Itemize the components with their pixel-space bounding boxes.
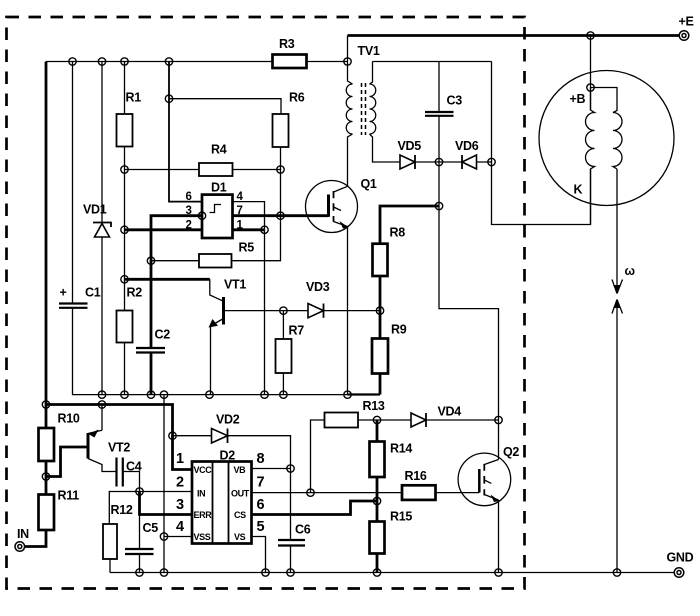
resistor R10 [39, 412, 80, 462]
IC D1 Schmitt trigger [202, 181, 233, 239]
transistor Q2 [458, 445, 519, 506]
transistor VT2 (PNP) [88, 430, 130, 459]
node: R8/R9 junction [376, 307, 383, 314]
svg-text:VD5: VD5 [398, 139, 422, 153]
wire: D1 pin4 jumper to pin1 [233, 202, 265, 230]
node: R10/R11 junction [42, 473, 49, 480]
capacitor C2 [136, 328, 170, 353]
capacitor C3 [425, 94, 462, 116]
node: C4 / pin2 / pin3 junction [136, 488, 143, 495]
svg-text:6: 6 [257, 497, 265, 513]
svg-text:R11: R11 [58, 489, 80, 503]
svg-text:3: 3 [176, 497, 184, 513]
diode VD6 (points left) [455, 139, 479, 169]
resistor R14 [370, 442, 413, 478]
wire: pin1 ground drop x=264.5 [264, 230, 266, 395]
wire: R7 leads [282, 311, 284, 395]
node: R8 tap junction [435, 202, 442, 209]
node: motor +B junction [587, 84, 594, 91]
wire: VD2 cathode to pin8 [228, 436, 291, 469]
wire: +E supply rail [348, 34, 680, 37]
resistor R2 [117, 286, 143, 343]
resistor R9 [372, 323, 407, 374]
wire: R13 left drop [311, 420, 325, 493]
svg-text:IN: IN [17, 527, 29, 541]
svg-text:VT2: VT2 [108, 441, 130, 455]
resistor R15 [370, 510, 413, 554]
svg-text:C3: C3 [447, 94, 463, 108]
diode VD4 [411, 405, 461, 428]
wire: R10 to R11 chain with IN terminal [25, 461, 47, 547]
diode VD3 [306, 280, 330, 318]
transistor VT1 [209, 278, 247, 395]
svg-text:ω: ω [625, 264, 636, 278]
svg-text:R15: R15 [390, 510, 412, 524]
svg-text:VD4: VD4 [438, 405, 462, 419]
terminal IN [15, 527, 29, 551]
resistor R12 [103, 503, 133, 559]
svg-text:VCC: VCC [194, 465, 213, 475]
node: bottom bus junctions [136, 569, 621, 576]
capacitor C4 [117, 458, 142, 487]
svg-text:+: + [60, 286, 67, 300]
node: VD2 anode junction [169, 432, 176, 439]
svg-text:Q1: Q1 [361, 177, 377, 191]
svg-text:3: 3 [186, 205, 192, 217]
svg-text:OUT: OUT [231, 489, 250, 499]
svg-text:1: 1 [176, 451, 184, 467]
wire: VT2 collector to C4 [88, 459, 116, 472]
dashed enclosure border [7, 17, 525, 589]
wire: D2 pin7 (OUT) line to R16 [252, 492, 403, 494]
wire: R4 right / R5 right vertical x=280.5 [232, 170, 281, 261]
svg-text:IN: IN [197, 489, 205, 499]
wire: D1 pin6 supply branch x=169 [169, 62, 202, 202]
wire: VD3 cathode to R8/R9 node [324, 310, 381, 312]
IC D2 controller [192, 449, 252, 544]
node: rectifier node VD5/VD6 [435, 158, 442, 165]
svg-text:R8: R8 [390, 226, 406, 240]
transistor Q1 [306, 177, 377, 395]
wire: D2 pin3 (ERR) bold lead [140, 492, 193, 515]
svg-text:R9: R9 [391, 323, 407, 337]
svg-text:R16: R16 [405, 469, 427, 483]
wire: C6 branch x=290.5 [290, 469, 292, 573]
diode VD5 [398, 139, 422, 169]
wire: VD2 anode tap from VCC line [173, 435, 212, 437]
svg-text:8: 8 [257, 451, 265, 467]
resistor R3 [273, 37, 307, 68]
wire: Q2 emitter to ground bus [498, 500, 500, 573]
wire: R8-R9 junction (bold) [379, 276, 382, 339]
svg-text:C6: C6 [295, 523, 311, 537]
wire: D1 pin3 to C2 (bold) [151, 216, 202, 348]
node: VD6/motor node [488, 158, 495, 165]
wire: VT2 emitter riser x=102 [101, 405, 103, 431]
wire: supply bus bold (y=404.5) to D2 VCC [46, 405, 192, 470]
wire: D1 pin7 to Q1 base (bold) [233, 214, 329, 217]
svg-text:VT1: VT1 [224, 278, 246, 292]
capacitor C1 (electrolytic) [59, 286, 101, 308]
D1 pin numbers [186, 191, 244, 231]
wire: D2 pin6 (CS) bold stepped lead [252, 501, 378, 515]
resistor R8 [373, 226, 406, 277]
node: D1 pin2 junction [121, 226, 128, 233]
svg-text:R12: R12 [111, 503, 133, 517]
zener diode VD1 [83, 203, 111, 238]
node: +E rail junction to motor [587, 32, 594, 39]
node: VD4 cathode junction [495, 416, 502, 423]
svg-text:4: 4 [237, 191, 244, 203]
svg-text:7: 7 [257, 475, 265, 491]
wire: C3 branch x=439 [439, 62, 499, 460]
resistor R13 [325, 399, 385, 428]
wire: +E rail drop to top bus [347, 36, 349, 62]
node: D1 pin1 junction [261, 226, 268, 233]
svg-text:R5: R5 [239, 241, 255, 255]
svg-text:7: 7 [237, 205, 243, 217]
wire: VD4 cathode to Q2 collector line [426, 419, 499, 421]
node: R4 right junction [277, 166, 284, 173]
wire: R12 bottom lead [109, 559, 111, 573]
svg-text:VSS: VSS [194, 532, 211, 542]
wire: R16 right to Q2 base [436, 492, 480, 494]
node: R5 left junction [147, 257, 154, 264]
svg-text:2: 2 [186, 219, 192, 231]
wire: VD6 anode to secondary top node [477, 62, 492, 163]
svg-text:VD2: VD2 [216, 413, 240, 427]
wire: ground bus (y=394.6) [73, 308, 348, 395]
wire: R14 chain (bold) x=377 [376, 420, 379, 573]
node: VT1 base junction [121, 276, 128, 283]
svg-text:R10: R10 [58, 412, 80, 426]
wire: D2 pin4 (VSS) branch x=164 [164, 395, 192, 573]
transformer TV1 [346, 44, 380, 135]
svg-text:CS: CS [234, 510, 246, 520]
speed sensor connector (omega) [612, 264, 636, 314]
wire: D2 pin8 (VB) lead [252, 468, 291, 470]
svg-text:R1: R1 [126, 91, 142, 105]
svg-text:VB: VB [234, 465, 247, 475]
svg-text:R13: R13 [363, 399, 385, 413]
svg-text:VS: VS [234, 532, 246, 542]
svg-text:TV1: TV1 [358, 44, 380, 58]
wire: C1 branch x=72.5 [72, 62, 74, 304]
wire: VT1 base feed (bold, y=279.3) [125, 278, 210, 281]
node: D2 pin8 junction [287, 465, 294, 472]
node: D1 pin7 junction [277, 212, 284, 219]
resistor R16 [402, 469, 436, 500]
svg-text:R7: R7 [289, 324, 305, 338]
svg-text:K: K [574, 183, 583, 197]
svg-text:ERR: ERR [194, 510, 213, 520]
wire: D1 pin1 stub (bold) [233, 228, 265, 231]
svg-text:1: 1 [237, 219, 244, 231]
wire: R1/R2 branch x=124.5 [124, 62, 126, 395]
resistor R1 [117, 91, 142, 147]
wire: ground bus bold right end [348, 393, 381, 395]
wire: R5 left lead [151, 260, 199, 262]
wire: TV1 secondary bottom to VD5 [370, 134, 401, 162]
resistor R4 [199, 143, 233, 177]
capacitor C6 [278, 523, 311, 546]
node: D1 pin3 junction [198, 212, 205, 219]
svg-text:C1: C1 [85, 286, 101, 300]
svg-text:R6: R6 [289, 91, 305, 105]
node: R13 right junction [373, 416, 380, 423]
wire: motor supply drop x=590.5 [590, 36, 592, 111]
svg-text:VD6: VD6 [455, 139, 479, 153]
svg-text:GND: GND [667, 551, 694, 565]
wire: VT2 base network (bold) [46, 447, 87, 477]
svg-text:D2: D2 [220, 449, 236, 463]
wire: TV1 secondary top line [370, 62, 492, 85]
node: D2 pin4 junction [160, 533, 167, 540]
wire: TV1 primary bottom to Q1 collector [348, 134, 353, 186]
terminal GND [667, 551, 694, 578]
wire: top bus (left section, y=61.5) [46, 61, 348, 63]
wire: tacho line to GND bus with connector gap [616, 169, 618, 573]
svg-text:D1: D1 [211, 181, 227, 195]
node: R6 feed junction [165, 95, 172, 102]
resistor R7 [276, 324, 305, 374]
wire: R8 top feed (bold) [380, 206, 439, 244]
wire: VT1 collector line to VD3 and R7 node [225, 310, 309, 312]
wire: bold left vertical x=46 [45, 62, 48, 429]
node: top bus junctions [69, 58, 351, 65]
svg-text:VD3: VD3 [306, 280, 330, 294]
node: ground bus junctions [98, 391, 351, 398]
wire: C5 top lead [139, 515, 141, 550]
wire: D2 pin5 (VS) lead [252, 537, 266, 573]
svg-text:R14: R14 [390, 442, 412, 456]
wire: R13 right to VD4 [358, 419, 411, 421]
node: VD3 anode / R7 junction [280, 307, 287, 314]
svg-text:C4: C4 [126, 460, 142, 474]
motor M with windings [539, 71, 674, 225]
wire: R4 left lead to x=124.5 [125, 169, 200, 171]
D2 pin numbers [176, 451, 265, 535]
wire: R9 bottom (bold) [379, 374, 382, 395]
wire: C2 bottom lead (bold) [150, 353, 153, 395]
diode VD2 [212, 413, 240, 444]
svg-text:R4: R4 [211, 143, 227, 157]
node: R13 drop / pin7 junction [307, 489, 314, 496]
svg-text:C2: C2 [155, 328, 171, 342]
terminal +E [679, 15, 694, 41]
svg-text:R2: R2 [127, 286, 143, 300]
resistor R6 [273, 91, 305, 148]
wire: VD5 cathode to node [415, 161, 462, 163]
node: R14/R15/pin6 junction [373, 497, 380, 504]
svg-text:5: 5 [257, 519, 265, 535]
wire: VD1 branch x=102 [101, 62, 103, 395]
wire: D2 pin2 (IN) lead with R12 corner [109, 492, 192, 525]
wire: D1 pin2 lead (bold) [125, 228, 203, 231]
svg-text:6: 6 [186, 191, 192, 203]
wire: C4 right lead down to IN pin node [124, 472, 140, 492]
wire: bottom ground bus [110, 572, 674, 574]
resistor R11 [39, 489, 80, 531]
wire: TV1 primary top connection [348, 62, 353, 85]
node: R4 left junction [121, 166, 128, 173]
svg-text:Q2: Q2 [503, 445, 519, 459]
svg-text:C5: C5 [143, 521, 159, 535]
wire: R6 bottom lead [280, 147, 282, 170]
resistor R5 [199, 241, 254, 268]
svg-text:2: 2 [176, 475, 184, 491]
wire: R6 feed (y=98.7) [169, 99, 281, 114]
svg-text:+B: +B [570, 92, 586, 106]
D2 internal pin names [194, 465, 250, 542]
svg-text:R3: R3 [279, 37, 295, 51]
wire: motor drive wire from VD6 node [492, 162, 591, 225]
wire: C5 bottom lead [139, 554, 141, 573]
svg-text:+E: +E [679, 15, 694, 29]
capacitor C5 [125, 521, 158, 554]
svg-text:4: 4 [176, 519, 184, 535]
node: supply bus junctions [42, 401, 105, 408]
svg-text:VD1: VD1 [83, 203, 107, 217]
